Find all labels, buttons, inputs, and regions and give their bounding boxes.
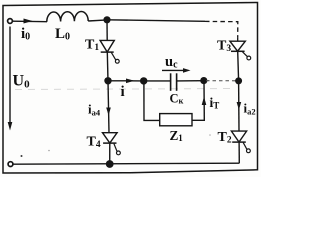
scan speck: [209, 134, 211, 136]
scan smudge streak: [15, 89, 236, 90]
node middle-2: [140, 77, 147, 84]
wire node1 down: [108, 81, 109, 133]
wire top to right (solid): [107, 20, 205, 22]
wire dashed node3 to node4: [206, 80, 236, 82]
wire middle (node1 to node2): [108, 80, 144, 82]
load branch left wire: [144, 81, 160, 121]
arrow i0: [24, 19, 33, 24]
border frame: [3, 3, 258, 174]
bottom wire: [13, 163, 239, 164]
load branch right wire: [192, 81, 204, 120]
inductor L0: [47, 11, 88, 21]
scan speck: [48, 150, 50, 152]
input terminal top-left: [8, 19, 13, 24]
capacitor Ck: [171, 73, 177, 91]
arrow uc: [162, 68, 191, 73]
wire top dashed to corner: [205, 21, 238, 37]
node middle-3: [200, 77, 207, 84]
input terminal bottom-left: [8, 162, 13, 167]
wire inductor to node: [88, 20, 107, 21]
wire capacitor to node3: [177, 80, 204, 82]
node top junction: [103, 16, 110, 23]
thyristor T2: [231, 81, 250, 163]
load Z1: [160, 114, 192, 126]
arrow ia4: [106, 108, 111, 116]
voltage arrow U0: [8, 27, 13, 131]
thyristor T3: [230, 38, 251, 81]
arrow iT: [202, 97, 207, 106]
node bottom: [106, 160, 114, 168]
thyristor T4: [103, 133, 121, 164]
node middle-4: [235, 77, 242, 84]
scan speck: [21, 155, 23, 157]
wire to capacitor: [144, 80, 171, 82]
svg-text:i: i: [121, 84, 125, 100]
thyristor T1: [100, 20, 119, 81]
arrow i: [126, 79, 135, 84]
wire top input: [13, 20, 47, 23]
node middle-left: [104, 77, 111, 84]
arrow ia2: [237, 102, 242, 110]
